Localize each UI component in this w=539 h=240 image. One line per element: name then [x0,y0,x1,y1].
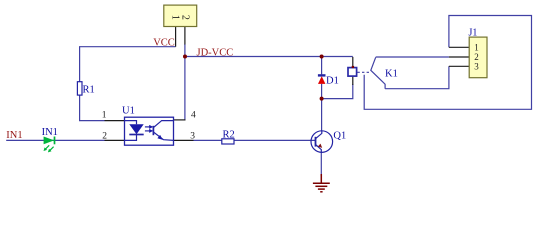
svg-text:VCC: VCC [153,37,175,48]
svg-text:R1: R1 [83,85,95,96]
svg-text:3: 3 [190,132,195,142]
svg-text:IN1: IN1 [42,127,58,138]
svg-text:JD-VCC: JD-VCC [197,48,234,59]
svg-text:4: 4 [191,111,196,121]
svg-text:1: 1 [169,15,180,20]
svg-text:2: 2 [102,132,107,142]
svg-text:3: 3 [474,62,479,72]
svg-text:U1: U1 [122,105,135,116]
svg-text:D1: D1 [326,76,339,87]
svg-text:R2: R2 [223,130,235,141]
svg-text:1: 1 [102,111,107,121]
svg-text:J1: J1 [469,27,478,38]
svg-text:2: 2 [179,15,190,20]
svg-text:1: 1 [474,42,479,52]
svg-text:Q1: Q1 [333,130,346,141]
svg-text:IN1: IN1 [6,130,22,141]
svg-text:2: 2 [474,52,479,62]
svg-text:K1: K1 [385,68,398,79]
